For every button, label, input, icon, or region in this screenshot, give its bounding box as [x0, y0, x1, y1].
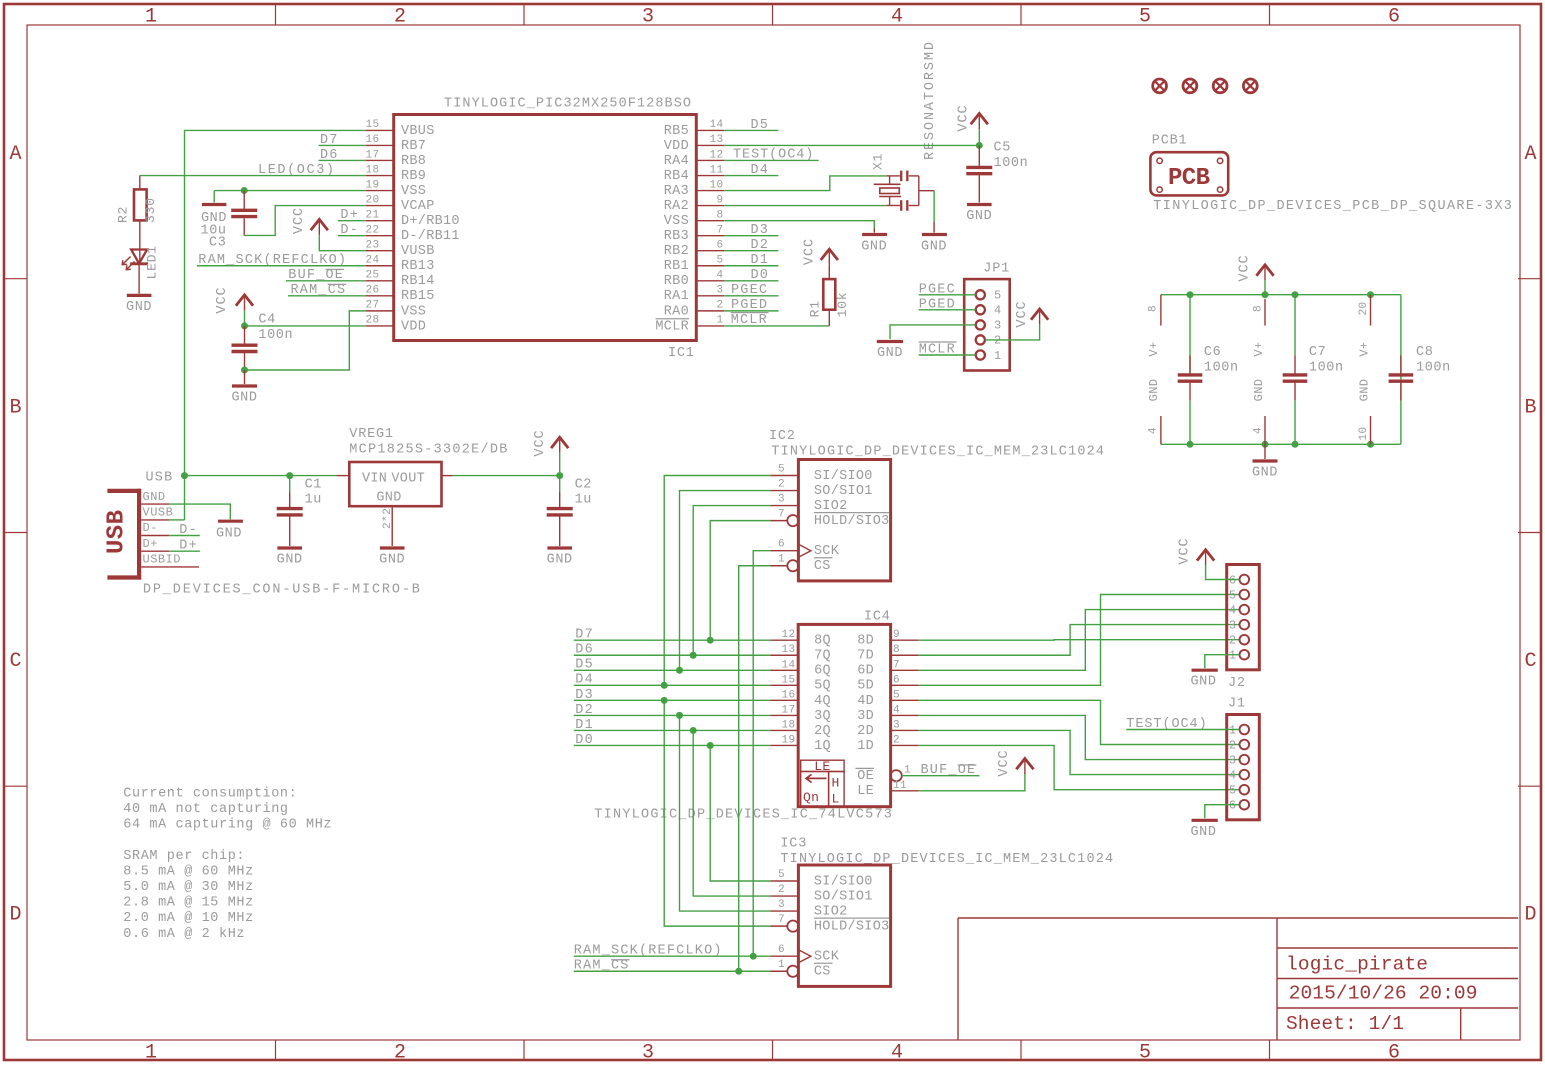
svg-text:V+: V+ [1252, 341, 1266, 356]
svg-text:3: 3 [994, 319, 1002, 333]
svg-text:6: 6 [893, 674, 900, 686]
wire J1 pin6 to ground [1205, 805, 1240, 819]
svg-text:1: 1 [1229, 649, 1237, 663]
IC4 LE function table [801, 759, 844, 807]
svg-text:4: 4 [994, 304, 1002, 318]
svg-text:VCC: VCC [803, 238, 818, 265]
svg-text:L: L [832, 792, 840, 807]
svg-text:VOUT: VOUT [391, 472, 425, 487]
ground [966, 205, 992, 225]
svg-text:5: 5 [778, 464, 785, 476]
node D5 bus wire [574, 658, 770, 673]
svg-text:2*2: 2*2 [382, 508, 394, 529]
IC4 pin 1 OE [891, 770, 902, 781]
svg-text:100n: 100n [1204, 361, 1239, 376]
svg-text:SO/SIO1: SO/SIO1 [814, 889, 873, 904]
wire D1 to IC3 [693, 730, 770, 896]
wire VCC stem [559, 453, 561, 476]
junction D3 [661, 697, 668, 704]
svg-text:GND: GND [1190, 825, 1216, 840]
svg-text:8: 8 [1148, 305, 1160, 312]
svg-text:7: 7 [716, 224, 723, 236]
IC4 pin 16 4Q [770, 699, 798, 701]
svg-text:GND: GND [547, 553, 573, 568]
svg-text:GND: GND [1252, 379, 1266, 402]
svg-text:X1: X1 [871, 153, 886, 170]
svg-text:C3: C3 [209, 236, 226, 251]
IC1 pin 14 RB5 [696, 129, 724, 131]
wire USB GND pin to ground [169, 504, 230, 519]
ground [1252, 444, 1278, 480]
IC1 pin 8 VSS [696, 220, 724, 222]
svg-text:12: 12 [709, 149, 723, 161]
svg-text:D-: D- [143, 521, 158, 535]
junction D2 [676, 712, 683, 719]
J1 pin 5 [1240, 785, 1250, 795]
IC4 pin 13 7Q [770, 654, 798, 656]
IC1 pin 13 VDD [696, 144, 724, 146]
node D7 label [319, 133, 366, 148]
node D3 bus wire [574, 688, 770, 703]
svg-text:GND: GND [921, 240, 947, 255]
wire VUSB pin to USB net [169, 519, 184, 521]
svg-text:C5: C5 [994, 141, 1011, 156]
svg-text:IC4: IC4 [864, 610, 891, 625]
svg-text:1: 1 [145, 1042, 157, 1065]
svg-text:8D: 8D [857, 634, 874, 649]
capacitor C8 100n [1389, 345, 1451, 400]
svg-text:D: D [1524, 904, 1536, 927]
J2 pin 2 [1240, 635, 1250, 645]
svg-text:6: 6 [1388, 1042, 1400, 1065]
IC1 pin 16 RB7 [366, 144, 394, 146]
svg-text:PCB1: PCB1 [1152, 133, 1188, 148]
IC1 pin 28 VDD [366, 325, 394, 327]
IC1 pin 2 RA0 [696, 310, 724, 312]
svg-text:GND: GND [966, 209, 992, 224]
capacitor C5 100n [966, 141, 1028, 203]
svg-text:1D: 1D [857, 739, 874, 754]
svg-text:GND: GND [1147, 379, 1161, 402]
svg-text:RA2: RA2 [664, 199, 689, 214]
IC1 pin 24 RB13 [366, 265, 394, 267]
svg-text:1: 1 [1229, 723, 1237, 737]
svg-text:GND: GND [376, 491, 401, 506]
IC1 pin 15 VBUS [366, 129, 394, 131]
svg-text:1u: 1u [575, 493, 592, 508]
svg-text:RESONATORSMD: RESONATORSMD [923, 42, 938, 160]
svg-text:VSS: VSS [401, 184, 426, 199]
svg-text:D-/RB11: D-/RB11 [401, 229, 460, 244]
svg-text:1: 1 [716, 315, 723, 327]
junction C5 top [976, 142, 983, 149]
wire IC4 4D to J1 pin 2 [919, 700, 1240, 744]
VREG1 pin GND [391, 506, 393, 546]
svg-text:4: 4 [891, 1042, 903, 1065]
node BUF_OE label [902, 763, 980, 778]
VCC symbol [215, 286, 253, 313]
VCC symbol [1015, 300, 1048, 327]
svg-text:GND: GND [231, 391, 257, 406]
svg-text:GND: GND [143, 490, 166, 504]
svg-text:6: 6 [778, 539, 785, 551]
J2 pin 3 [1240, 620, 1250, 630]
svg-text:15: 15 [366, 119, 380, 131]
wire VCC to VUSB pin23 [319, 235, 365, 251]
svg-text:VCC: VCC [997, 749, 1012, 776]
IC4 pin 15 5Q [770, 684, 798, 686]
J1 pin 3 [1240, 755, 1250, 765]
svg-text:RA3: RA3 [664, 184, 689, 199]
svg-text:SCK: SCK [814, 544, 840, 559]
svg-text:6: 6 [1388, 6, 1400, 29]
svg-text:17: 17 [781, 704, 795, 716]
svg-text:2: 2 [394, 6, 406, 29]
wire VDD pin28 [245, 325, 366, 327]
wire J2 pin1 to ground [1205, 655, 1240, 669]
svg-text:15: 15 [781, 674, 795, 686]
svg-text:RB0: RB0 [664, 274, 689, 289]
J1 pin 6 [1240, 800, 1250, 810]
node PGED label [724, 298, 778, 313]
ground [201, 191, 227, 226]
wire VCC rail (C6-C8 top) [1161, 294, 1401, 296]
svg-text:GND: GND [1357, 379, 1371, 402]
svg-text:64 mA capturing @ 60 MHz: 64 mA capturing @ 60 MHz [123, 818, 332, 833]
svg-text:GND: GND [379, 553, 405, 568]
svg-text:3Q: 3Q [814, 709, 831, 724]
svg-text:16: 16 [781, 689, 795, 701]
svg-text:H: H [832, 776, 840, 791]
svg-text:C1: C1 [305, 478, 322, 493]
svg-text:GND: GND [877, 346, 903, 361]
svg-text:VUSB: VUSB [401, 244, 435, 259]
svg-text:27: 27 [366, 300, 380, 312]
svg-text:TINYLOGIC_PIC32MX250F128BSO: TINYLOGIC_PIC32MX250F128BSO [444, 97, 691, 112]
node D2 bus wire [574, 703, 770, 718]
svg-text:6: 6 [716, 240, 723, 252]
VCC symbol [533, 429, 568, 456]
svg-text:TINYLOGIC_DP_DEVICES_IC_MEM_23: TINYLOGIC_DP_DEVICES_IC_MEM_23LC1024 [771, 445, 1104, 460]
svg-text:25: 25 [366, 270, 380, 282]
svg-text:R1: R1 [808, 300, 823, 317]
wire X1 center pin to ground [933, 191, 935, 222]
svg-text:OE: OE [857, 769, 874, 784]
junction bottom rail [1367, 441, 1374, 448]
svg-text:LED1: LED1 [145, 245, 160, 279]
node D6 label [319, 148, 366, 163]
IC1 pin 26 RB15 [366, 295, 394, 297]
junction USB net [181, 472, 188, 479]
wire VOUT to VCC/C2 [453, 475, 560, 477]
node D3 label [724, 223, 778, 238]
IC4 pin 11 LE [891, 790, 919, 792]
svg-text:14: 14 [781, 659, 795, 671]
svg-text:40 mA not capturing: 40 mA not capturing [123, 802, 288, 817]
junction C4 bottom [241, 367, 248, 374]
svg-text:100n: 100n [994, 156, 1029, 171]
svg-text:7: 7 [893, 659, 900, 671]
svg-text:100n: 100n [1309, 361, 1344, 376]
svg-text:19: 19 [781, 734, 795, 746]
svg-text:PCB: PCB [1168, 165, 1210, 192]
ground [277, 548, 303, 568]
node D- label [169, 523, 200, 538]
svg-text:12: 12 [781, 629, 795, 641]
header J1 [1227, 697, 1260, 820]
junction bottom rail [1262, 441, 1269, 448]
J1 pin 4 [1240, 770, 1250, 780]
svg-text:0.6 mA @ 2 kHz: 0.6 mA @ 2 kHz [123, 927, 245, 942]
svg-text:4: 4 [716, 270, 723, 282]
svg-text:8: 8 [893, 644, 900, 656]
JP1 pin 4 [976, 305, 985, 314]
mounting hole H1 [1153, 79, 1167, 93]
svg-text:7: 7 [778, 509, 785, 521]
svg-text:1: 1 [994, 349, 1002, 363]
svg-text:4D: 4D [857, 694, 874, 709]
junction RAM_CS [735, 968, 742, 975]
IC1 pin 23 VUSB [366, 250, 394, 252]
IC4 pin 2 1D [891, 744, 919, 746]
svg-text:4: 4 [893, 704, 900, 716]
svg-text:RA4: RA4 [664, 154, 689, 169]
mounting hole H4 [1243, 79, 1257, 93]
junction C4 top [241, 322, 248, 329]
junction D5 [676, 667, 683, 674]
svg-text:1: 1 [778, 554, 785, 566]
svg-text:Current consumption:: Current consumption: [123, 786, 297, 801]
svg-text:B: B [9, 397, 21, 420]
svg-text:3: 3 [893, 719, 900, 731]
IC1 pin 25 RB14 [366, 280, 394, 282]
node PGEC label [919, 282, 976, 297]
VCC symbol [803, 238, 838, 265]
svg-text:26: 26 [366, 285, 380, 297]
svg-text:100n: 100n [1416, 361, 1451, 376]
svg-text:17: 17 [366, 149, 380, 161]
VCC symbol [997, 749, 1033, 776]
svg-text:7D: 7D [857, 649, 874, 664]
svg-text:10k: 10k [835, 292, 850, 318]
svg-text:VSS: VSS [401, 304, 426, 319]
junction bottom rail [1292, 441, 1299, 448]
wire IC4 1D to J1 pin 5 [919, 745, 1240, 789]
VREG1 pin VIN [336, 475, 349, 477]
junction D0 [707, 742, 714, 749]
svg-text:5: 5 [1229, 784, 1237, 798]
svg-text:C2: C2 [575, 478, 592, 493]
svg-text:2: 2 [1229, 738, 1237, 752]
svg-text:6: 6 [1229, 573, 1237, 587]
wire VSS pin8 to ground [724, 221, 874, 229]
svg-text:10: 10 [709, 179, 723, 191]
svg-text:A: A [9, 143, 21, 166]
wire VCC to C5 [978, 129, 980, 145]
ground [1190, 820, 1217, 840]
svg-text:IC3: IC3 [780, 837, 807, 852]
svg-text:J1: J1 [1228, 697, 1246, 712]
junction D4 [661, 682, 668, 689]
header JP1 [964, 262, 1010, 371]
IC1 pin 10 RA3 [696, 190, 724, 192]
svg-text:3: 3 [1229, 753, 1237, 767]
svg-text:1: 1 [904, 765, 911, 777]
IC1 pin 22 D-/RB11 [366, 235, 394, 237]
svg-text:TINYLOGIC_DP_DEVICES_IC_74LVC5: TINYLOGIC_DP_DEVICES_IC_74LVC573 [594, 808, 892, 823]
svg-text:RB14: RB14 [401, 274, 435, 289]
svg-text:5: 5 [1139, 6, 1151, 29]
svg-text:20: 20 [1358, 301, 1370, 315]
svg-text:5: 5 [716, 255, 723, 267]
header J2 [1227, 565, 1260, 692]
node PGED label [919, 297, 976, 312]
svg-text:C: C [9, 650, 21, 673]
node D1 label [724, 253, 778, 268]
svg-text:18: 18 [366, 164, 380, 176]
junction top rail [1262, 291, 1269, 298]
node D0 bus wire [574, 733, 770, 748]
svg-text:MCLR: MCLR [655, 319, 689, 334]
IC4 pin 8 7D [891, 654, 919, 656]
wire VCC to J2 pin6 [1206, 564, 1240, 579]
IC2 pin 3 SIO2 [770, 505, 798, 507]
IC4 pin 10 stub [1357, 379, 1371, 445]
junction D6 [690, 652, 697, 659]
svg-text:GND: GND [216, 527, 242, 542]
junction C2 top [556, 472, 563, 479]
svg-text:LE: LE [814, 759, 830, 774]
svg-text:5.0 mA @ 30 MHz: 5.0 mA @ 30 MHz [123, 880, 254, 895]
node LED(OC3) label [258, 163, 334, 178]
svg-text:8.5 mA @ 60 MHz: 8.5 mA @ 60 MHz [123, 864, 254, 879]
svg-text:2: 2 [893, 734, 900, 746]
wire C3 bottom to VCAP pin20 [244, 206, 366, 236]
svg-text:R2: R2 [115, 206, 130, 223]
svg-text:GND: GND [1190, 675, 1216, 690]
wire D3 to IC3 [664, 700, 770, 926]
node TEST(OC4) label [724, 148, 818, 163]
wire VBUS net (IC1 pin15 to USB VUSB) [185, 130, 366, 520]
IC3 pin 8 stub [1252, 299, 1266, 357]
svg-text:VCC: VCC [1237, 254, 1252, 281]
svg-text:7: 7 [778, 914, 785, 926]
IC2 pin 6 SCK [770, 550, 798, 552]
svg-text:VSS: VSS [664, 214, 689, 229]
wire RAM_CS (IC2 pin1 to IC3 pin1) [739, 566, 771, 972]
wire IC4 3D to J1 pin 3 [919, 715, 1240, 759]
svg-text:VCC: VCC [1015, 300, 1030, 327]
wire RA2 pin9 to X1 bottom [724, 205, 886, 207]
resonator X1 RESONATORSMD [871, 42, 938, 211]
junction D1 [690, 727, 697, 734]
wire JP1 pin3 to ground [890, 325, 976, 339]
svg-text:2: 2 [778, 884, 785, 896]
node MCLR label [724, 313, 829, 329]
J2 pin 4 [1240, 605, 1250, 615]
svg-text:3: 3 [716, 285, 723, 297]
IC1 pin 7 RB3 [696, 235, 724, 237]
IC2 pin 5 SI/SIO0 [770, 475, 798, 477]
svg-text:RB9: RB9 [401, 169, 426, 184]
junction top rail [1292, 291, 1299, 298]
svg-text:2.8 mA @ 15 MHz: 2.8 mA @ 15 MHz [123, 896, 254, 911]
IC1 pin 11 RB4 [696, 175, 724, 177]
mounting hole H2 [1183, 79, 1197, 93]
svg-text:MCP1825S-3302E/DB: MCP1825S-3302E/DB [349, 443, 507, 458]
wire IC4 8D to J2 pin 5 [919, 639, 1240, 642]
svg-text:2D: 2D [857, 724, 874, 739]
svg-text:5: 5 [994, 289, 1002, 303]
node D1 bus wire [574, 718, 770, 733]
svg-text:SI/SIO0: SI/SIO0 [814, 469, 873, 484]
USB pin VUSB [141, 519, 169, 521]
wire VCC to VDD pin28 [244, 310, 246, 326]
svg-text:6D: 6D [857, 664, 874, 679]
svg-text:11: 11 [893, 780, 907, 792]
node PGEC label [724, 283, 778, 298]
VCC symbol [292, 207, 328, 235]
voltage regulator VREG1 MCP1825S-3302E/DB [336, 427, 507, 546]
svg-text:100n: 100n [258, 328, 293, 343]
wire D7 to IC2 [710, 521, 770, 641]
svg-text:24: 24 [366, 255, 380, 267]
svg-text:VDD: VDD [401, 319, 426, 334]
svg-text:RB8: RB8 [401, 154, 426, 169]
IC2 pin 4 stub [1147, 379, 1161, 445]
wire RAM_SCK (IC2 pin6 to IC3 pin6) [753, 551, 770, 957]
svg-text:USBID: USBID [143, 553, 182, 567]
wire C4 bottom to VSS pin27 [245, 311, 366, 370]
IC4 pin 18 2Q [770, 729, 798, 731]
junction top rail [1367, 291, 1374, 298]
svg-text:6Q: 6Q [814, 664, 831, 679]
wire VCC stem to rail [1264, 280, 1266, 294]
svg-text:SIO2: SIO2 [814, 499, 848, 514]
junction D7 [707, 637, 714, 644]
VCC symbol [1237, 254, 1273, 281]
svg-text:RA0: RA0 [664, 304, 689, 319]
svg-text:SI/SIO0: SI/SIO0 [814, 874, 873, 889]
svg-text:2.0 mA @ 10 MHz: 2.0 mA @ 10 MHz [123, 911, 254, 926]
svg-text:Qn: Qn [803, 790, 819, 805]
svg-text:V+: V+ [1147, 341, 1161, 356]
IC2 pin 1 CS [770, 565, 787, 567]
svg-text:GND: GND [1252, 466, 1278, 481]
JP1 pin 3 [976, 320, 985, 329]
node D7 bus wire [574, 628, 770, 643]
wire VDD pin13 to C5 [724, 144, 979, 146]
svg-text:RB7: RB7 [401, 139, 426, 154]
svg-text:VUSB: VUSB [143, 506, 174, 520]
svg-text:330: 330 [143, 197, 158, 223]
IC2 pin 7 HOLD/SIO3 [770, 520, 787, 522]
J2 pin 5 [1240, 590, 1250, 600]
svg-text:logic_pirate: logic_pirate [1286, 953, 1428, 975]
node D+ label [338, 208, 366, 223]
svg-text:1Q: 1Q [814, 739, 831, 754]
capacitor C3 10u [201, 191, 258, 251]
svg-text:8: 8 [1253, 305, 1265, 312]
svg-text:SO/SIO1: SO/SIO1 [814, 484, 873, 499]
wire VSS pin19 to C3/GND [214, 190, 366, 192]
svg-text:GND: GND [126, 300, 152, 315]
svg-text:GND: GND [861, 240, 887, 255]
svg-text:C8: C8 [1416, 345, 1433, 360]
svg-text:13: 13 [709, 134, 723, 146]
wire IC4 2D to J1 pin 4 [919, 730, 1240, 774]
ground [547, 548, 573, 568]
